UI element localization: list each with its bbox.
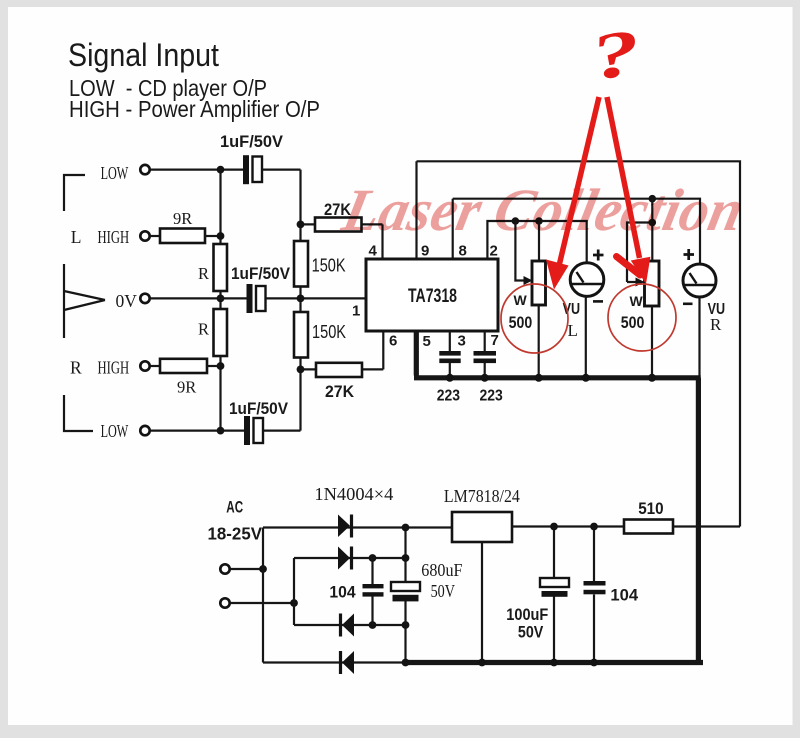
resistor 150K (lower) (294, 312, 308, 358)
svg-text:104: 104 (329, 584, 356, 602)
node junction (217, 166, 225, 174)
wire AC1 vertical (262, 528, 264, 663)
svg-text:1uF/50V: 1uF/50V (231, 264, 291, 283)
svg-text:500: 500 (509, 314, 533, 332)
svg-text:8: 8 (459, 243, 467, 260)
svg-text:27K: 27K (325, 382, 355, 401)
diode D1 1N4004 (338, 515, 350, 538)
svg-text:LM7818/24: LM7818/24 (444, 486, 520, 506)
annotation circle pot R (608, 284, 676, 351)
svg-text:Laser Collection: Laser Collection (336, 178, 749, 244)
svg-text:5: 5 (423, 333, 431, 350)
resistor 510 (624, 520, 673, 534)
diode D4 1N4004 (342, 651, 354, 674)
svg-text:50V: 50V (518, 623, 544, 642)
node junction on inner frame (649, 195, 657, 203)
svg-text:R: R (710, 315, 722, 334)
wire VU L bottom (585, 296, 587, 377)
annotation circle pot L (501, 284, 568, 353)
svg-text:500: 500 (621, 314, 645, 332)
wire (263, 430, 301, 432)
svg-text:18-25V: 18-25V (208, 524, 263, 544)
wire rectifier row 2 (294, 557, 406, 559)
wire rectifier row 4 (263, 661, 410, 663)
svg-text:4: 4 (369, 243, 378, 260)
bracket common chevron (64, 264, 105, 338)
terminal AC 2 (220, 598, 229, 607)
wire (231, 568, 264, 570)
svg-text:AC: AC (226, 499, 243, 517)
terminal LOW R (140, 426, 149, 435)
svg-text:50V: 50V (431, 581, 456, 601)
node junctions on ground bus (446, 374, 454, 382)
svg-text:150K: 150K (312, 256, 346, 276)
wire pot R bottom (651, 306, 653, 378)
resistor 9R (R) (160, 359, 207, 373)
svg-text:104: 104 (610, 587, 639, 605)
svg-text:150K: 150K (312, 322, 346, 342)
annotation arrow to pot L (559, 97, 600, 268)
wire frame inner to VU R (453, 199, 700, 264)
svg-text:L: L (71, 227, 82, 247)
wire wiper R (627, 223, 652, 283)
svg-text:9R: 9R (177, 378, 196, 397)
svg-text:6: 6 (389, 333, 397, 350)
svg-text:1uF/50V: 1uF/50V (229, 399, 289, 418)
node junction (535, 217, 543, 225)
svg-text:2: 2 (490, 243, 498, 260)
wire pin 8 (452, 199, 454, 259)
svg-text:HIGH: HIGH (98, 227, 130, 247)
wire pot R tap (651, 199, 653, 223)
wire ground bus thick (406, 331, 703, 663)
wire (205, 235, 221, 237)
svg-text:1N4004×4: 1N4004×4 (314, 484, 393, 504)
wire (231, 602, 295, 604)
VU meter L (570, 263, 604, 297)
wire regulator ground (481, 542, 483, 663)
terminal HIGH L (140, 231, 149, 240)
capacitor 104 (bridge) (371, 558, 373, 625)
annotation barb stroke (617, 257, 641, 276)
svg-text:7: 7 (491, 332, 499, 349)
potentiometer W500 L (532, 261, 546, 305)
resistor 150K (upper) (294, 241, 308, 287)
svg-text:W: W (514, 292, 528, 308)
node junctions on x221 (217, 232, 225, 240)
wire pin 9 supply (415, 161, 417, 259)
svg-text:510: 510 (638, 500, 663, 518)
capacitor 1uF/50V (0V) (247, 284, 253, 313)
wire (151, 365, 161, 367)
capacitor 1uF/50V (LOW L) (243, 155, 249, 184)
wire input bus x221 (219, 170, 221, 431)
terminal AC 1 (220, 564, 229, 573)
wire DC link x405 (404, 528, 406, 663)
svg-text:680uF: 680uF (421, 560, 462, 580)
svg-text:Signal Input: Signal Input (68, 37, 219, 73)
svg-text:HIGH: HIGH (98, 358, 130, 378)
svg-text:9R: 9R (173, 209, 192, 228)
capacitor 223 (pin 7) (484, 331, 486, 378)
wire (262, 169, 301, 171)
capacitor 223 (pin 3) (449, 331, 451, 378)
diode D2 1N4004 (338, 547, 350, 570)
VU meter R (683, 264, 716, 297)
svg-text:W: W (630, 293, 644, 309)
wire 27K lower row / pin 6 (301, 331, 384, 369)
wire 510 to supply frame (673, 525, 740, 527)
wire (151, 430, 245, 432)
terminal LOW L (140, 165, 149, 174)
potentiometer W500 R (645, 261, 660, 306)
wire VU R bottom (698, 297, 700, 378)
svg-text:223: 223 (437, 388, 461, 405)
wire AC2 vertical (293, 558, 295, 625)
IC TA7318 (366, 259, 498, 331)
wire rectifier row 3 (294, 624, 406, 626)
wire (151, 169, 244, 171)
diode D3 1N4004 (342, 614, 354, 637)
resistor 27K (upper) (315, 218, 362, 232)
wire rectifier row 1 (263, 526, 452, 528)
svg-text:9: 9 (421, 243, 429, 260)
svg-text:1uF/50V: 1uF/50V (220, 132, 284, 151)
wire (151, 235, 161, 237)
node junctions bridge (402, 524, 410, 532)
svg-text:0V: 0V (116, 291, 138, 311)
svg-text:100uF: 100uF (506, 605, 548, 624)
bracket R channel (64, 395, 93, 431)
terminal 0V (140, 294, 149, 303)
svg-text:TA7318: TA7318 (408, 286, 457, 307)
wire 0V rail to pin 1 (151, 297, 367, 299)
annotation arrow to pot R (607, 97, 640, 258)
plus VU R (684, 249, 695, 260)
wire pot L top (538, 221, 540, 261)
wire divider bus x300 (299, 170, 301, 431)
bracket L channel (64, 175, 85, 211)
svg-text:LOW: LOW (101, 421, 129, 441)
regulator LM7818/24 (452, 512, 512, 542)
svg-text:223: 223 (480, 388, 504, 405)
plus VU L (593, 250, 604, 261)
wire (207, 365, 221, 367)
capacitor 100uF/50V (553, 527, 555, 663)
svg-text:L: L (568, 321, 578, 340)
node junctions on x300 (297, 221, 305, 229)
wire wiper L (515, 221, 525, 281)
capacitor 104 (output) (593, 527, 595, 663)
svg-text:HIGH - Power Amplifier O/P: HIGH - Power Amplifier O/P (69, 96, 320, 122)
wire regulator output (512, 525, 624, 527)
minus VU L (593, 300, 603, 303)
resistor 27K (lower) (316, 363, 362, 377)
wire pot L bottom (538, 305, 540, 378)
svg-text:R: R (70, 358, 82, 378)
capacitor 1uF/50V (LOW R) (244, 416, 250, 445)
node junction (512, 217, 520, 225)
minus VU R (683, 302, 693, 305)
svg-text:R: R (198, 320, 209, 339)
capacitor 680uF/50V (404, 558, 406, 625)
svg-text:LOW: LOW (101, 163, 129, 183)
wire pin 2 to VU L (487, 221, 586, 264)
svg-text:1: 1 (352, 303, 360, 320)
svg-text:R: R (198, 264, 209, 283)
terminal HIGH R (140, 361, 149, 370)
wire 27K upper row (301, 224, 383, 259)
svg-text:3: 3 (458, 333, 466, 350)
wire pot R top (651, 223, 653, 262)
wire supply frame outer (417, 161, 741, 526)
